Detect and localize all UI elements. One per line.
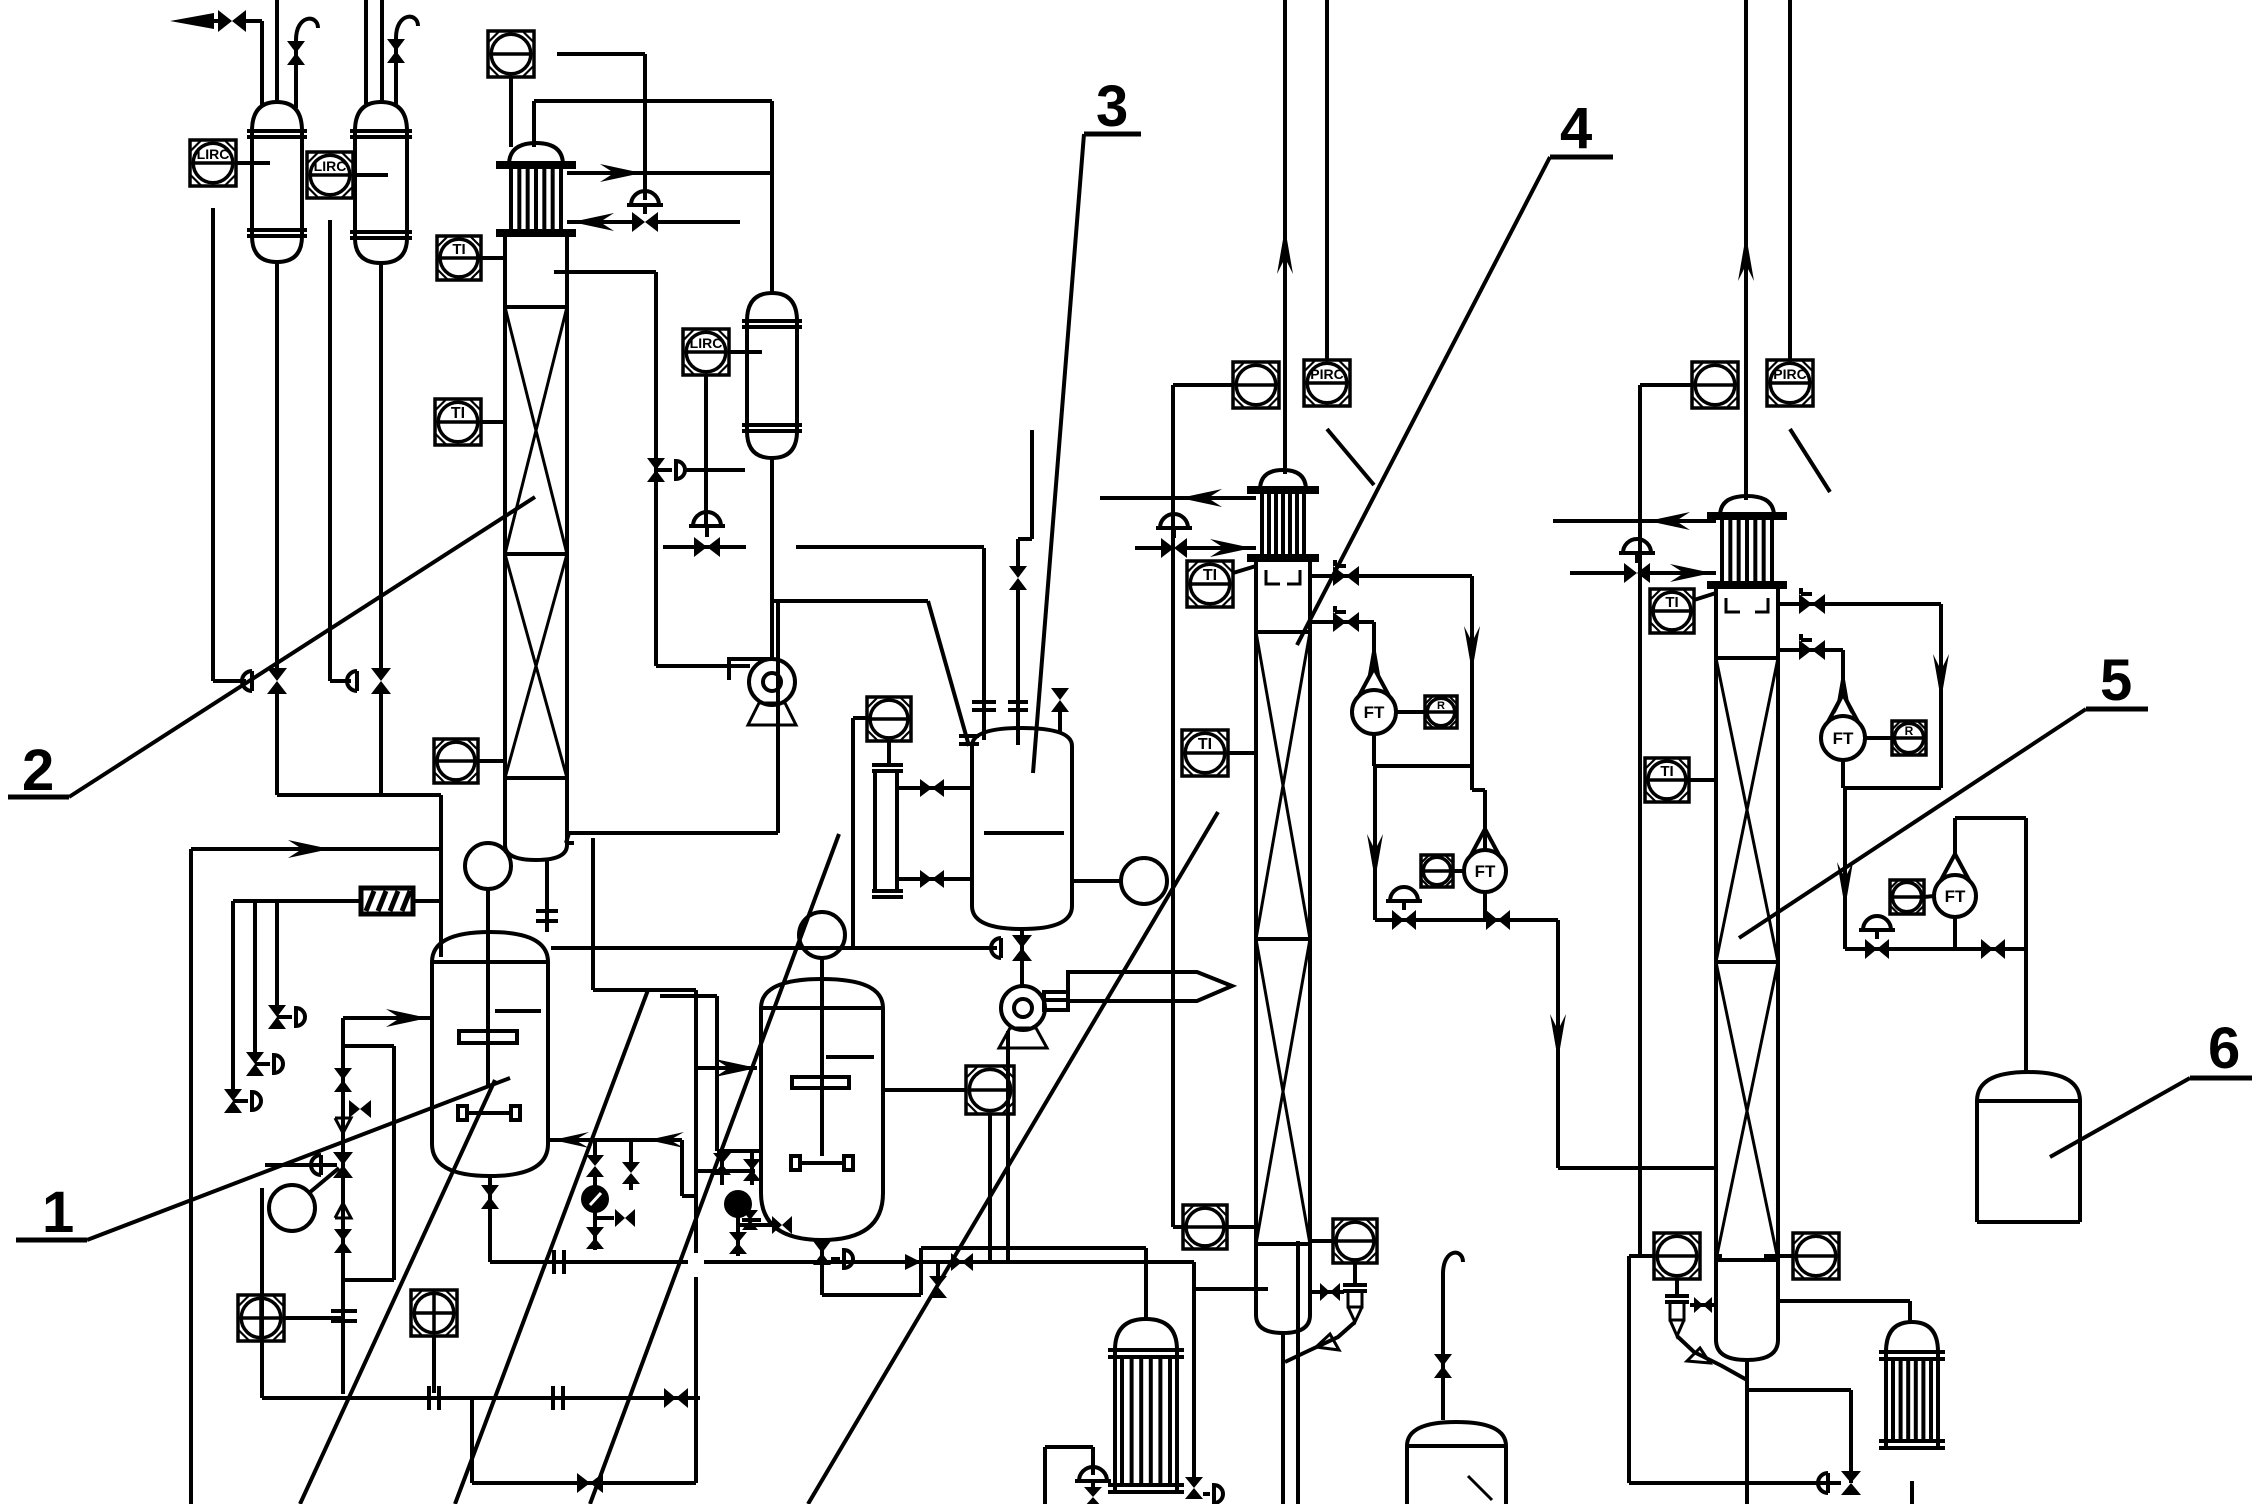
drum outlet xyxy=(770,458,774,660)
seat on vessel A bottoms valve xyxy=(242,671,252,691)
CW in col5 xyxy=(1570,571,1624,575)
col5 drain riser xyxy=(1849,1390,1853,1483)
vent valve B xyxy=(394,38,398,106)
flange pair col2 feed xyxy=(536,909,558,913)
reactor 2 jacket line xyxy=(660,994,717,998)
reactor 2 feed line xyxy=(591,838,595,990)
col5 condenser xyxy=(1720,496,1774,516)
leader diagonal D xyxy=(808,812,1218,1504)
col5 drain L line xyxy=(1629,1254,1654,1258)
signal LIRC B down xyxy=(328,220,332,681)
vessel B xyxy=(355,102,407,131)
vent valve a xyxy=(224,1089,242,1101)
reboiler 1 xyxy=(1115,1319,1177,1350)
col5 FT outlet xyxy=(1843,788,1847,949)
inst col5 bottom right xyxy=(1793,1233,1839,1279)
col4 FT outlet xyxy=(1373,766,1377,920)
valve on vessel3 vapor xyxy=(1009,566,1027,578)
col5 FT2 inst xyxy=(1890,880,1924,914)
col5 packing line1 xyxy=(1716,656,1778,660)
wire TI lower xyxy=(480,420,505,424)
reflux drum xyxy=(747,293,797,321)
wire I2a right xyxy=(557,52,645,56)
vent pipe b xyxy=(253,901,257,1053)
sight glass bottom valve xyxy=(897,877,972,881)
valve V1 on overhead line xyxy=(218,10,232,32)
line col4 to col5 xyxy=(1520,918,1558,922)
control valve on vessel A bottoms xyxy=(267,668,287,681)
vessel B bottoms pipe xyxy=(379,263,383,668)
column 2 packing X 2 xyxy=(505,554,567,778)
LIRC drum xyxy=(683,329,729,375)
pipe into vessel A top xyxy=(275,0,279,104)
reactor 1 impeller xyxy=(459,1031,517,1043)
reboiler 2 bottom pipe xyxy=(1910,1481,1914,1504)
col5 injector stub xyxy=(1690,1303,1716,1307)
left feed riser xyxy=(189,849,193,1504)
line y948 xyxy=(551,946,997,950)
col4 packing X1 xyxy=(1256,632,1310,939)
signal LIRC drum to valve xyxy=(704,375,708,526)
LIRC B xyxy=(307,152,353,198)
inline heater xyxy=(361,888,413,914)
line to vessel 6 xyxy=(2024,818,2028,1072)
svg-text:FT: FT xyxy=(1833,729,1854,748)
column 2 packing X 1 xyxy=(505,307,567,554)
col5 packing line2 xyxy=(1716,960,1778,964)
vessel 3 xyxy=(972,728,1072,746)
col4 bottom xyxy=(1256,1315,1310,1333)
line to pump 1 xyxy=(656,664,750,668)
reactor 1 lower paddle xyxy=(467,1111,511,1115)
lower riser x262 xyxy=(260,1188,264,1398)
static mixer lance xyxy=(1068,972,1232,1001)
col4 injector xyxy=(1353,1263,1357,1285)
wire inst col4 xyxy=(1173,383,1233,387)
svg-text:TI: TI xyxy=(1203,567,1217,584)
vessel 3 feed drop xyxy=(982,548,986,740)
tri down r1 xyxy=(335,1118,351,1133)
r1 outlet arrows xyxy=(548,1138,682,1142)
col4 R xyxy=(1425,696,1457,728)
col5 FT xyxy=(1821,716,1865,760)
col4 packing line1 xyxy=(1256,630,1310,634)
CW in valve col2 xyxy=(631,191,659,205)
col5 FT2 xyxy=(1934,875,1976,917)
reactor 2 feed arrow xyxy=(696,1066,757,1070)
reactor 1 side pipes xyxy=(341,1018,345,1394)
vessel 6 xyxy=(1977,1072,2080,1101)
col4 draw2 xyxy=(1310,620,1374,624)
sight glass top valve xyxy=(897,786,972,790)
col5 draw1 xyxy=(1778,602,1941,606)
check up r1 xyxy=(335,1203,351,1218)
col5 drain seat valve xyxy=(1818,1473,1828,1493)
column 2 condenser xyxy=(509,143,563,165)
lower inst 2 stem xyxy=(432,1336,436,1393)
drain pipe r1 xyxy=(488,1176,492,1262)
vessel 3 top valve xyxy=(1051,688,1069,700)
CW in col4 xyxy=(1135,546,1161,550)
col5 packing line3 xyxy=(1716,1258,1778,1262)
product arrow out xyxy=(170,13,214,29)
svg-text:3: 3 xyxy=(1096,74,1128,139)
gauge r1 low xyxy=(269,1185,315,1231)
vent valve A xyxy=(294,40,298,108)
seat on vessel B bottoms valve xyxy=(347,671,357,691)
col4 packing line2 xyxy=(1256,937,1310,941)
bottoms header xyxy=(277,793,441,797)
inst col5 bottom left xyxy=(1654,1233,1700,1279)
svg-text:PIRC: PIRC xyxy=(1773,366,1806,382)
blowdown vessel xyxy=(1407,1422,1506,1446)
col5 riser 2 xyxy=(1788,0,1792,360)
mid gauge xyxy=(726,1192,750,1216)
wire inst col2 side xyxy=(478,759,505,763)
bottoms line valve xyxy=(951,1253,962,1271)
col4 FT2 loop xyxy=(1470,766,1474,790)
col5 injector xyxy=(1675,1279,1679,1296)
flange on feed xyxy=(972,700,996,704)
vent hook B xyxy=(396,17,418,38)
vessel 3 feed flange left xyxy=(959,734,979,738)
col5 shell xyxy=(1714,589,1718,1340)
reactor 2 shell xyxy=(761,979,883,1008)
inst col4 bottom right xyxy=(1333,1219,1377,1263)
instrument reactor2 xyxy=(966,1066,1014,1114)
col5 bottom xyxy=(1716,1340,1778,1360)
sight glass instrument xyxy=(867,697,911,741)
reactor 2 side valve xyxy=(742,1218,761,1222)
vessel 3 gauge xyxy=(1121,858,1167,904)
vent valve b xyxy=(246,1052,264,1064)
valve on y1398 xyxy=(664,1388,676,1408)
reactor 1 level line xyxy=(495,1009,541,1013)
line y833 xyxy=(776,601,780,833)
reactor 1 shell xyxy=(432,932,548,962)
svg-text:LIRC: LIRC xyxy=(197,146,230,162)
signal r2 down xyxy=(988,1114,992,1262)
sample valve a2 xyxy=(586,1227,604,1238)
bottom left corner lines xyxy=(1043,1447,1047,1504)
CW out line col2 xyxy=(567,171,772,175)
CW out col4 xyxy=(1100,496,1256,500)
svg-text:FT: FT xyxy=(1945,887,1966,906)
sample branch b xyxy=(629,1140,633,1162)
col4 bottoms pipe xyxy=(1281,1333,1285,1504)
sample stub a xyxy=(595,1216,614,1220)
instrument col2 side xyxy=(434,739,478,783)
inst col5 bottom left ticks xyxy=(1764,1254,1778,1258)
col5 bottoms meter line xyxy=(1845,947,2026,951)
wire TI upper xyxy=(504,256,508,260)
col4 FT xyxy=(1352,690,1396,734)
drum outlet tee xyxy=(772,599,928,603)
svg-text:2: 2 xyxy=(22,738,54,803)
wire LIRC B to vessel B xyxy=(353,173,388,177)
vent valve on riser xyxy=(647,458,665,470)
col5 draw2 xyxy=(1778,648,1843,652)
reboiler 2 xyxy=(1886,1322,1938,1352)
col5 tray brackets xyxy=(1726,598,1740,612)
col5 bottoms pipe xyxy=(1745,1360,1749,1504)
col5 R xyxy=(1892,721,1926,755)
svg-text:TI: TI xyxy=(1660,763,1673,780)
lower inst 1 line xyxy=(284,1316,344,1320)
svg-text:FT: FT xyxy=(1364,703,1385,722)
mid cluster risers xyxy=(720,1150,724,1185)
leader diagonal A xyxy=(300,1080,495,1504)
reactor 2 paddle xyxy=(800,1161,844,1165)
col4 packing line3 xyxy=(1256,1242,1310,1246)
reactor 1 gauge stem xyxy=(486,889,490,935)
PIRC col5 signal xyxy=(1790,429,1830,492)
valve r1b xyxy=(334,1229,352,1241)
column 2 packing line 3 xyxy=(505,776,567,780)
svg-text:4: 4 xyxy=(1560,96,1592,161)
pump 2 xyxy=(1001,986,1045,1030)
vessel 3 vapor pipe xyxy=(1016,590,1020,745)
reboiler 2 vapor line xyxy=(1778,1299,1910,1303)
flange pair on bottoms line xyxy=(552,1250,556,1274)
svg-text:5: 5 xyxy=(2100,648,2132,713)
wire LIRC A to vessel A xyxy=(236,161,270,165)
column 2 packing line 1 xyxy=(505,305,567,309)
CW out col5 xyxy=(1553,519,1716,523)
svg-text:1: 1 xyxy=(42,1180,74,1245)
col4 condenser xyxy=(1260,470,1306,490)
col4 packing X2 xyxy=(1256,939,1310,1244)
instrument col4 top xyxy=(1233,362,1279,408)
svg-text:TI: TI xyxy=(451,405,465,422)
distillate line to vessel 3 xyxy=(796,545,984,549)
valve r1a xyxy=(334,1068,352,1080)
TI col5 lower xyxy=(1645,758,1689,802)
LIRC A xyxy=(190,140,236,186)
vent pipe a xyxy=(231,901,235,1090)
feed arrow line xyxy=(191,847,441,851)
pump 2 discharge xyxy=(1045,998,1068,1002)
instrument col5 top xyxy=(1692,362,1738,408)
column 2 bottom xyxy=(505,845,567,860)
svg-text:TI: TI xyxy=(1198,736,1212,753)
svg-text:6: 6 xyxy=(2208,1016,2240,1081)
mid valve c xyxy=(729,1232,747,1243)
column 2 shell xyxy=(503,237,507,845)
leader diagonal C xyxy=(590,834,839,1504)
bottoms line seat xyxy=(905,1254,921,1270)
overhead line to reflux drum xyxy=(532,101,536,147)
mid stub xyxy=(736,1216,740,1232)
pump 1 xyxy=(749,659,795,705)
TI col2 lower xyxy=(435,399,481,445)
flange on vessel3 vapor xyxy=(1008,700,1028,704)
reactor 2 stirrer xyxy=(820,958,824,1156)
wire overhead to vessel A xyxy=(260,21,264,106)
TI col2 upper xyxy=(437,236,481,280)
PIRC col4 xyxy=(1304,360,1350,406)
reactor 2 drain run xyxy=(822,1293,921,1297)
column 2 packing line 2 xyxy=(505,552,567,556)
reflux control valve xyxy=(663,545,746,549)
flange pair on y1398 xyxy=(551,1386,555,1410)
reactor 2 level line xyxy=(826,1055,874,1059)
swan vent pipe xyxy=(1443,1253,1463,1274)
col5 FT2 stem xyxy=(1955,816,2026,820)
TI col4 upper xyxy=(1187,561,1233,607)
PIRC col4 signal xyxy=(1327,429,1374,485)
reboiler drain line xyxy=(1192,1262,1196,1483)
svg-text:TI: TI xyxy=(1665,594,1678,611)
svg-text:R: R xyxy=(1905,724,1914,738)
vessel 3 level line xyxy=(984,831,1064,835)
col4 riser 1 xyxy=(1283,0,1287,474)
vent valve c xyxy=(268,1005,286,1017)
sight glass body xyxy=(872,763,903,767)
col4 FT2 xyxy=(1464,850,1506,892)
side line col2 to right xyxy=(554,270,656,274)
pump 2 drain xyxy=(1006,1031,1010,1262)
svg-text:R: R xyxy=(1437,700,1445,712)
globe r1 xyxy=(265,1163,337,1167)
mid valve b xyxy=(743,1159,761,1170)
inst col4 bottom left xyxy=(1183,1205,1227,1249)
wire inst col5 xyxy=(1640,383,1692,387)
vessel 3 drain valve xyxy=(1012,935,1032,948)
PIRC col5 xyxy=(1767,360,1813,406)
control valve on vessel B bottoms xyxy=(371,668,391,681)
signal I2a to condenser xyxy=(509,77,513,147)
reboiler 1 vapor pipe xyxy=(1144,1248,1148,1319)
leader diagonal B xyxy=(455,990,648,1504)
col4 loop right xyxy=(1470,576,1474,766)
svg-text:LIRC: LIRC xyxy=(314,158,347,174)
feed drop line to reactor 1 xyxy=(439,795,443,957)
vent pipe c xyxy=(275,901,279,1006)
bottoms branch valve xyxy=(936,1262,940,1276)
col4 side vertical xyxy=(1296,1241,1300,1504)
col4 bottoms meter line xyxy=(1375,918,1520,922)
col5 injector drain xyxy=(1677,1336,1747,1380)
lower line y1398 xyxy=(262,1396,700,1400)
main bottoms line xyxy=(490,1260,688,1264)
col5 riser 1 xyxy=(1744,0,1748,500)
reactor 2 impeller xyxy=(792,1077,849,1088)
reactor 2 jacket stub xyxy=(696,1169,755,1173)
TI vessel3/col4 xyxy=(1182,730,1228,776)
col4 tray brackets xyxy=(1266,570,1280,584)
col4 riser 2 xyxy=(1325,0,1329,360)
reactor 2 drain xyxy=(820,1240,824,1295)
svg-text:TI: TI xyxy=(452,241,465,258)
mid valve a xyxy=(713,1153,731,1164)
col5 loop right xyxy=(1939,604,1943,788)
instrument I2a xyxy=(488,31,534,77)
wire down to CW valve xyxy=(643,54,647,200)
check r1 xyxy=(349,1100,360,1118)
heater line xyxy=(233,899,359,903)
reactor 1 feed arrow xyxy=(343,1016,430,1020)
svg-text:FT: FT xyxy=(1475,862,1496,881)
sample gauge a xyxy=(583,1187,607,1211)
col4 FT2 inst xyxy=(1421,855,1453,887)
TI col5 upper xyxy=(1650,589,1694,633)
seat on vessel3 drain xyxy=(991,938,1001,958)
reactor 2 gauge xyxy=(799,912,845,958)
sight glass signal line xyxy=(853,716,867,720)
pipe into vessel B top 2 xyxy=(380,0,384,103)
col4 shell xyxy=(1254,562,1258,1315)
svg-text:PIRC: PIRC xyxy=(1310,366,1343,382)
reactor 1 stirrer shaft xyxy=(486,935,490,1087)
lower inst 1 xyxy=(238,1295,284,1341)
vessel A xyxy=(252,102,302,131)
wire TI to col4 xyxy=(1228,751,1256,755)
col5 packing X1 xyxy=(1716,658,1778,962)
svg-text:LIRC: LIRC xyxy=(690,335,723,351)
wire LIRC drum xyxy=(729,350,762,354)
col5 packing X2 xyxy=(1716,962,1778,1260)
signal LIRC A down xyxy=(211,208,215,681)
vent hook A xyxy=(296,19,318,40)
vessel A bottoms pipe xyxy=(275,262,279,668)
col4 injector stub xyxy=(1310,1290,1344,1294)
col4 draw1 xyxy=(1310,574,1472,578)
lower inst 2 xyxy=(411,1290,457,1336)
sample branch a xyxy=(593,1140,597,1155)
col4 injector drain xyxy=(1285,1322,1355,1362)
bypass line xyxy=(470,1398,474,1483)
column 2 bottoms pipe xyxy=(545,860,549,932)
reboiler stub line xyxy=(1194,1287,1268,1291)
pipe into vessel B top 1 xyxy=(364,0,368,104)
wire inst r2 xyxy=(883,1088,966,1092)
reactor 1 gauge xyxy=(465,843,511,889)
